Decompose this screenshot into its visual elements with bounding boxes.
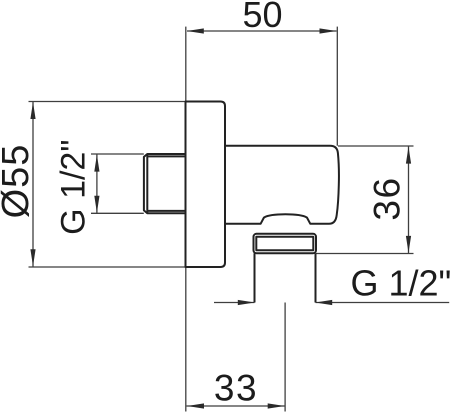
svg-text:G 1/2": G 1/2" [54,140,92,235]
svg-text:33: 33 [214,368,258,409]
svg-text:36: 36 [367,176,408,220]
svg-text:Ø55: Ø55 [0,144,37,219]
svg-text:50: 50 [242,0,282,35]
svg-text:G 1/2": G 1/2" [351,263,450,304]
